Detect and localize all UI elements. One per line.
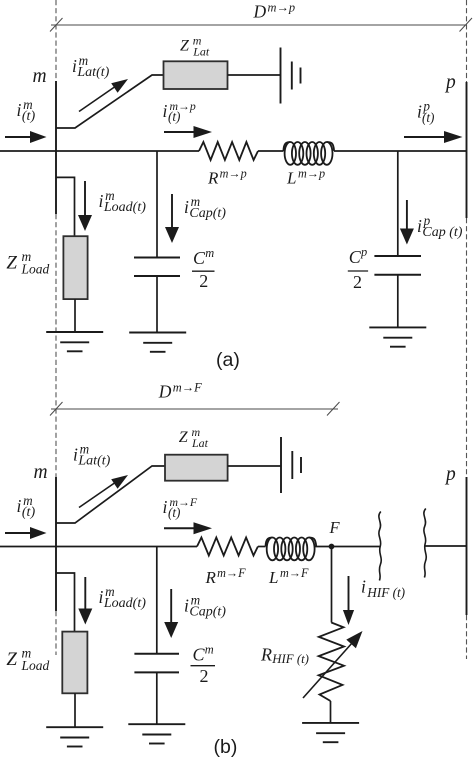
svg-text:R: R bbox=[207, 168, 219, 187]
svg-text:C: C bbox=[349, 247, 362, 267]
svg-text:Z: Z bbox=[180, 38, 190, 55]
svg-text:Cap(t): Cap(t) bbox=[189, 206, 226, 221]
right boundary dashed bottom (b) bbox=[466, 615, 468, 659]
label Z^m_Load (b) bbox=[6, 646, 49, 674]
wire C^m to ground (b) bbox=[156, 672, 158, 724]
right boundary dashed top (a) bbox=[466, 0, 468, 82]
label i^m_(t) (b) bbox=[17, 493, 36, 520]
bus p (b) bbox=[466, 477, 468, 615]
svg-text:i: i bbox=[73, 445, 78, 465]
svg-text:(t): (t) bbox=[422, 110, 434, 125]
svg-text:i: i bbox=[72, 56, 77, 76]
svg-text:(t): (t) bbox=[168, 109, 180, 124]
current arrow i_Lat (a) bbox=[79, 79, 128, 112]
svg-text:m: m bbox=[205, 246, 214, 260]
svg-text:p: p bbox=[360, 245, 367, 259]
impedance Z_Lat box (b) bbox=[165, 455, 228, 481]
label bus m (b) bbox=[34, 462, 48, 483]
ground lateral (a) bbox=[281, 48, 301, 104]
svg-text:Load(t): Load(t) bbox=[103, 596, 146, 611]
wire main line left segment (a) bbox=[0, 150, 199, 152]
left boundary dashed middle bbox=[55, 214, 57, 477]
label C^m/2 (b) bbox=[191, 643, 216, 687]
label bus p (b) bbox=[444, 464, 456, 485]
svg-text:HIF (t): HIF (t) bbox=[271, 652, 309, 666]
svg-text:Lat: Lat bbox=[191, 436, 209, 450]
label node F (b) bbox=[329, 518, 341, 537]
label bus p (a) bbox=[444, 72, 456, 93]
svg-text:Z: Z bbox=[6, 649, 17, 670]
svg-text:Cap(t): Cap(t) bbox=[189, 605, 226, 620]
svg-text:m: m bbox=[33, 66, 47, 87]
label R_HIF(t) (b) bbox=[260, 645, 309, 667]
label i^m_Cap(t) (a) bbox=[184, 194, 226, 221]
label R^{m->F} (b) bbox=[205, 566, 247, 587]
svg-text:2: 2 bbox=[353, 272, 362, 292]
current arrow i_Lat (b) bbox=[79, 475, 128, 508]
bus m (a) bbox=[55, 81, 57, 214]
svg-text:m→p: m→p bbox=[298, 166, 325, 180]
wire load branch stub (b) bbox=[56, 573, 75, 632]
current arrow i_Load (b) bbox=[78, 577, 92, 625]
label Z^m_Lat (b) bbox=[179, 425, 209, 450]
svg-text:m→p: m→p bbox=[220, 166, 247, 180]
wire Z_Lat to ground (a) bbox=[228, 74, 280, 76]
current arrow i^m_Cap (a) bbox=[165, 194, 179, 243]
label Z^m_Lat (a) bbox=[180, 33, 210, 58]
capacitor C^m/2 plates (a) bbox=[134, 258, 180, 277]
svg-text:(t): (t) bbox=[22, 109, 36, 124]
svg-text:Cap (t): Cap (t) bbox=[422, 225, 462, 240]
current arrow i^{m->F} (b) bbox=[164, 522, 212, 534]
label i^p_Cap(t) (a) bbox=[417, 213, 463, 240]
resistor R^{m->F} (b) bbox=[197, 538, 258, 556]
svg-text:(b): (b) bbox=[214, 736, 238, 758]
svg-text:C: C bbox=[193, 645, 206, 665]
svg-text:HIF (t): HIF (t) bbox=[366, 585, 405, 600]
wire Z_Load to ground (a) bbox=[74, 299, 76, 332]
svg-text:C: C bbox=[193, 248, 206, 268]
wire lateral branch (b) bbox=[56, 466, 165, 523]
svg-text:i: i bbox=[17, 496, 22, 516]
impedance Z_Load box (b) bbox=[62, 632, 87, 694]
label L^{m->F} (b) bbox=[268, 566, 309, 587]
svg-text:Z: Z bbox=[179, 429, 189, 446]
svg-text:m→F: m→F bbox=[217, 566, 246, 580]
svg-text:i: i bbox=[99, 191, 104, 211]
svg-text:Lat(t): Lat(t) bbox=[77, 454, 110, 469]
svg-text:i: i bbox=[99, 587, 104, 607]
wire R_HIF to ground (b) bbox=[330, 701, 332, 723]
caption (a) bbox=[216, 349, 240, 371]
wire node F to break (b) bbox=[332, 546, 380, 548]
wire C^p to ground (a) bbox=[397, 275, 399, 328]
ground load (a) bbox=[46, 332, 103, 351]
svg-text:Lat: Lat bbox=[192, 45, 210, 59]
wire inductor to node F (b) bbox=[315, 546, 332, 548]
impedance Z_Lat box (a) bbox=[164, 61, 228, 89]
svg-text:2: 2 bbox=[200, 666, 209, 686]
wire main line left segment (b) bbox=[0, 546, 197, 548]
svg-text:D: D bbox=[158, 381, 172, 401]
svg-text:m→p: m→p bbox=[268, 1, 296, 15]
current arrow i^p_Cap (a) bbox=[400, 200, 414, 245]
label i^m_Load(t) (b) bbox=[99, 584, 147, 611]
label i^m_Cap(t) (b) bbox=[184, 593, 226, 620]
ground C^p (a) bbox=[369, 327, 426, 346]
label i^m_Lat(t) (a) bbox=[72, 53, 110, 80]
svg-text:(t): (t) bbox=[168, 505, 180, 520]
caption (b) bbox=[214, 736, 238, 758]
wire capacitor branch C^p (a) bbox=[397, 151, 399, 256]
wire resistor-inductor (b) bbox=[258, 546, 266, 548]
ground R_HIF (b) bbox=[302, 723, 359, 742]
label i^m_Lat(t) (b) bbox=[73, 442, 111, 469]
wire capacitor branch C^m (a) bbox=[156, 151, 158, 258]
svg-text:(t): (t) bbox=[22, 505, 36, 520]
wire lateral branch (a) bbox=[56, 75, 164, 128]
right boundary dashed middle bbox=[466, 218, 468, 477]
variable resistor arrow (b) bbox=[303, 631, 363, 698]
label i_HIF(t) (b) bbox=[361, 577, 405, 601]
wire inductor to bus p (a) bbox=[334, 150, 467, 152]
svg-text:i: i bbox=[417, 216, 422, 236]
svg-text:L: L bbox=[268, 568, 278, 587]
label R^{m->p} (a) bbox=[207, 166, 247, 187]
svg-text:(a): (a) bbox=[216, 349, 240, 371]
svg-text:R: R bbox=[260, 645, 272, 665]
svg-text:p: p bbox=[444, 464, 456, 485]
bus p (a) bbox=[466, 82, 468, 218]
label C^m/2 (a) bbox=[192, 246, 215, 291]
dimension line D m->F (b) bbox=[50, 402, 340, 416]
left boundary dashed bottom (b) bbox=[55, 611, 57, 655]
line break squiggle 2 (b) bbox=[424, 509, 426, 578]
svg-text:i: i bbox=[184, 596, 189, 616]
current arrow i^p (a) bbox=[404, 131, 463, 143]
dimension line D m->p (a) bbox=[50, 18, 472, 32]
line break squiggle 1 (b) bbox=[379, 512, 381, 581]
current arrow i_HIF (b) bbox=[343, 576, 354, 625]
svg-text:2: 2 bbox=[199, 271, 208, 291]
inductor L^{m->F} (b) bbox=[266, 538, 317, 561]
svg-text:i: i bbox=[184, 197, 189, 217]
capacitor C^p/2 plates (a) bbox=[374, 256, 421, 275]
capacitor C^m/2 plates (b) bbox=[134, 654, 179, 673]
wire Z_Load to ground (b) bbox=[74, 693, 76, 727]
label C^p/2 (a) bbox=[348, 245, 368, 292]
bus m (b) bbox=[55, 477, 57, 611]
svg-text:m→F: m→F bbox=[173, 380, 202, 394]
label i^m_Load(t) (a) bbox=[99, 188, 147, 215]
wire C^m to ground (a) bbox=[156, 276, 158, 333]
svg-text:i: i bbox=[17, 100, 22, 120]
label i^{m->F}_(t) (b) bbox=[163, 495, 198, 520]
svg-text:Load: Load bbox=[21, 262, 50, 277]
svg-text:m: m bbox=[205, 643, 214, 657]
svg-text:i: i bbox=[163, 497, 168, 517]
ground C^m (b) bbox=[128, 724, 185, 743]
svg-text:m: m bbox=[34, 462, 48, 483]
ground load (b) bbox=[46, 727, 103, 746]
current arrow i^m (a) bbox=[5, 131, 47, 143]
current arrow i_Load (a) bbox=[78, 181, 92, 231]
label i^m_(t) (a) bbox=[17, 97, 36, 124]
svg-text:Lat(t): Lat(t) bbox=[76, 65, 109, 80]
svg-text:p: p bbox=[444, 72, 456, 93]
svg-text:m→F: m→F bbox=[280, 566, 309, 580]
svg-text:i: i bbox=[361, 577, 366, 597]
wire load branch stub (a) bbox=[56, 177, 75, 236]
label bus m (a) bbox=[33, 66, 47, 87]
label Z^m_Load (a) bbox=[6, 249, 49, 277]
svg-text:Load: Load bbox=[21, 658, 50, 673]
label L^{m->p} (a) bbox=[286, 166, 325, 187]
label D^{m->F} (b) bbox=[158, 380, 202, 401]
ground lateral (b) bbox=[281, 437, 301, 493]
wire break to bus p (b) bbox=[425, 545, 467, 547]
svg-text:F: F bbox=[329, 518, 341, 537]
svg-text:L: L bbox=[286, 168, 296, 187]
wire Z_Lat to ground (b) bbox=[228, 465, 281, 467]
impedance Z_Load box (a) bbox=[63, 236, 87, 299]
wire capacitor branch C^m (b) bbox=[156, 547, 158, 654]
left boundary dashed top (a) bbox=[55, 0, 57, 81]
svg-text:i: i bbox=[163, 101, 168, 121]
svg-text:D: D bbox=[253, 2, 267, 22]
svg-text:Z: Z bbox=[6, 252, 17, 273]
resistor R_HIF (b) bbox=[319, 623, 344, 702]
ground C^m (a) bbox=[129, 333, 186, 352]
label i^p_(t) (a) bbox=[417, 99, 434, 126]
current arrow i^m (b) bbox=[5, 527, 47, 539]
svg-text:R: R bbox=[205, 568, 217, 587]
label i^{m->p}_(t) (a) bbox=[163, 99, 196, 124]
inductor L^{m->p} (a) bbox=[283, 142, 334, 165]
svg-text:Load(t): Load(t) bbox=[103, 200, 146, 215]
current arrow i^m_Cap (b) bbox=[164, 589, 178, 638]
resistor R^{m->p} (a) bbox=[199, 142, 258, 160]
wire node F to R_HIF (b) bbox=[331, 547, 333, 623]
node F dot (b) bbox=[329, 544, 335, 550]
label D^{m->p} (a) bbox=[253, 1, 296, 22]
current arrow i^{m->p} (a) bbox=[164, 126, 212, 138]
wire resistor-inductor (a) bbox=[258, 150, 283, 152]
